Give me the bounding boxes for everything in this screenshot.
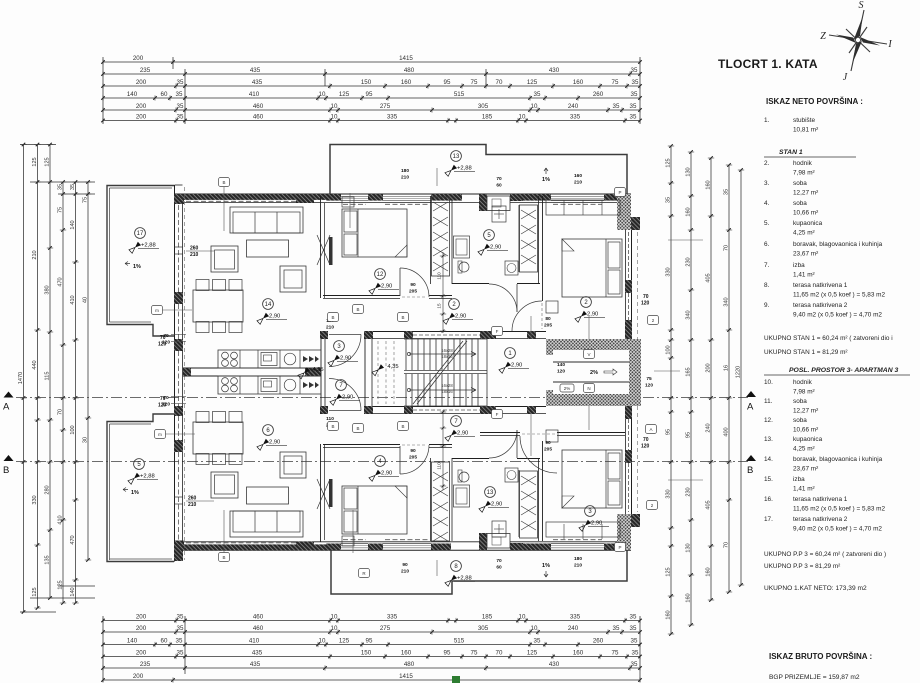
room label entry top (334, 341, 345, 352)
svg-text:15.: 15. (764, 476, 773, 483)
svg-text:izba: izba (793, 262, 805, 269)
svg-text:70: 70 (643, 437, 649, 443)
svg-text:205: 205 (544, 447, 552, 453)
svg-text:435: 435 (250, 67, 261, 74)
svg-text:70: 70 (724, 542, 730, 548)
svg-text:160: 160 (706, 567, 712, 576)
armchair top (211, 246, 238, 272)
wall south-west hatch band (174, 544, 330, 550)
tag bath bottom (492, 410, 503, 419)
bedroom SE west wall (542, 441, 544, 541)
room label corridor (505, 348, 516, 359)
tv bottom apartment (329, 479, 333, 507)
stair break line (413, 372, 438, 404)
svg-text:soba: soba (793, 398, 807, 405)
svg-text:75: 75 (83, 197, 89, 203)
sofa bottom apartment (230, 511, 303, 537)
svg-text:435: 435 (250, 661, 261, 668)
svg-text:305: 305 (478, 103, 489, 110)
wall west (174, 185, 176, 562)
dimension block left (20, 144, 56, 146)
svg-text:9,40 m2 (x 0,5 koef ) = 4,70 m: 9,40 m2 (x 0,5 koef ) = 4,70 m2 (793, 312, 882, 319)
svg-text:210: 210 (188, 502, 197, 508)
dimension block top (103, 61, 640, 63)
svg-text:125: 125 (666, 567, 672, 576)
tv top apartment (329, 237, 333, 265)
bedroom door arc bottom (399, 446, 401, 474)
svg-text:13.: 13. (764, 436, 773, 443)
bathroom top fixtures (454, 236, 470, 258)
svg-text:240: 240 (706, 423, 712, 432)
svg-text:1,41 m²: 1,41 m² (793, 486, 815, 493)
roof overhang dashed line east lower (637, 406, 639, 512)
svg-text:180: 180 (401, 168, 409, 174)
svg-text:95: 95 (666, 429, 672, 435)
svg-text:130: 130 (686, 167, 692, 176)
svg-text:135: 135 (45, 555, 51, 564)
svg-text:480: 480 (404, 67, 415, 74)
svg-text:B: B (3, 465, 9, 476)
svg-text:J: J (843, 72, 848, 83)
svg-text:210: 210 (574, 180, 582, 186)
corridor north wall (373, 331, 546, 333)
svg-text:F: F (496, 412, 499, 417)
svg-text:35: 35 (613, 103, 620, 110)
svg-text:2,90: 2,90 (457, 431, 468, 437)
svg-text:140: 140 (557, 362, 565, 368)
svg-text:35: 35 (631, 661, 638, 668)
svg-text:260: 260 (188, 496, 197, 502)
tag west wall top (152, 306, 163, 315)
svg-text:1%: 1% (542, 563, 550, 569)
svg-text:11,65 m2 (x 0,5 koef ) = 5,83: 11,65 m2 (x 0,5 koef ) = 5,83 m2 (793, 292, 886, 299)
svg-text:125: 125 (32, 587, 38, 596)
svg-text:UKUPNO P.P 3 = 81,29 m²: UKUPNO P.P 3 = 81,29 m² (764, 563, 840, 570)
svg-text:A: A (747, 402, 754, 413)
lobby interior (553, 361, 629, 363)
svg-text:90: 90 (410, 282, 416, 288)
svg-text:2%: 2% (564, 386, 571, 391)
room label entry bottom (336, 380, 347, 391)
bedroom4 door arc (512, 301, 542, 331)
wall south hatch piers (174, 544, 184, 551)
bathroom north wall bottom (452, 458, 489, 460)
tag east A (646, 425, 657, 434)
svg-text:STAN 1: STAN 1 (779, 149, 803, 156)
svg-text:120: 120 (645, 383, 653, 389)
svg-text:I: I (887, 39, 892, 50)
svg-text:70: 70 (163, 395, 169, 401)
svg-text:150: 150 (361, 79, 372, 86)
wardrobe column top (432, 197, 450, 276)
svg-text:75: 75 (471, 650, 478, 657)
svg-text:2,90: 2,90 (587, 312, 598, 318)
apartment entry door top (329, 334, 361, 336)
compass wind rose (829, 10, 887, 71)
svg-text:ISKAZ BRUTO POVRŠINA :: ISKAZ BRUTO POVRŠINA : (769, 652, 872, 661)
svg-text:95: 95 (444, 650, 451, 657)
kitchen party wall (183, 367, 321, 369)
svg-text:205: 205 (409, 455, 417, 461)
tag lobby N (584, 384, 595, 393)
svg-text:35: 35 (666, 197, 672, 203)
nightstand bedroom3 top (342, 197, 354, 207)
bedroom mid west wall bottom (320, 444, 322, 542)
svg-text:35: 35 (177, 114, 184, 121)
svg-text:7,98 m²: 7,98 m² (793, 389, 815, 396)
svg-text:140: 140 (70, 220, 76, 229)
tag west wall bottom (155, 430, 166, 439)
svg-text:23,67 m²: 23,67 m² (793, 251, 818, 258)
kitchen top (218, 350, 321, 368)
svg-text:110: 110 (437, 272, 442, 280)
tag lobby 2pct (560, 384, 574, 392)
svg-text:35: 35 (630, 625, 637, 632)
svg-text:16x28: 16x28 (441, 383, 453, 388)
svg-text:210: 210 (32, 250, 38, 259)
svg-text:TLOCRT 1. KATA: TLOCRT 1. KATA (718, 57, 818, 71)
svg-text:2,90: 2,90 (455, 314, 466, 320)
svg-text:B: B (401, 424, 404, 429)
svg-text:60: 60 (496, 183, 502, 189)
svg-text:230: 230 (686, 257, 692, 266)
wardrobe column 2 bottom (520, 471, 538, 538)
svg-text:2,90: 2,90 (490, 245, 501, 251)
svg-text:35: 35 (632, 79, 639, 86)
svg-text:140: 140 (70, 587, 76, 596)
nightstand bedroom4 (546, 301, 558, 313)
tag hall top 1 (353, 305, 364, 314)
svg-text:2,90: 2,90 (342, 395, 353, 401)
svg-text:m: m (158, 432, 162, 437)
svg-text:70: 70 (496, 79, 503, 86)
stair west wall (364, 331, 366, 414)
terrace 17 top-left outline (107, 186, 174, 337)
svg-text:4,25 m²: 4,25 m² (793, 446, 815, 453)
svg-text:1220: 1220 (736, 366, 742, 378)
svg-text:275: 275 (380, 103, 391, 110)
svg-text:12.: 12. (764, 417, 773, 424)
svg-text:5.: 5. (764, 220, 770, 227)
tag hall bottom 3 (398, 422, 409, 431)
svg-text:10: 10 (331, 103, 338, 110)
svg-text:100: 100 (70, 425, 76, 434)
svg-text:205: 205 (544, 323, 552, 329)
terrace door marks west top (174, 246, 183, 248)
svg-text:boravak, blagovaonica i kuhinj: boravak, blagovaonica i kuhinja (793, 456, 883, 463)
svg-text:35: 35 (176, 638, 183, 645)
svg-text:1415: 1415 (399, 673, 413, 680)
mini dim line bedroom mid east bottom (442, 410, 444, 490)
svg-text:B: B (356, 426, 359, 431)
svg-text:B: B (222, 555, 225, 560)
svg-text:23,67 m²: 23,67 m² (793, 466, 818, 473)
svg-text:125: 125 (339, 638, 350, 645)
svg-text:160: 160 (686, 207, 692, 216)
bathroom south wall top (452, 283, 489, 285)
roof overhang dashed line east upper (637, 232, 639, 339)
svg-text:110: 110 (326, 416, 334, 422)
svg-text:90: 90 (545, 440, 551, 446)
svg-text:N: N (587, 386, 590, 391)
svg-text:125: 125 (58, 580, 64, 589)
svg-text:+2,88: +2,88 (457, 166, 472, 172)
svg-text:335: 335 (570, 114, 581, 121)
tag bath top (492, 327, 503, 336)
svg-text:10: 10 (319, 91, 326, 98)
tag terrace south (359, 569, 370, 578)
svg-text:7,98 m²: 7,98 m² (793, 170, 815, 177)
bedroom3 door arc (399, 268, 401, 296)
stair direction arrows (407, 352, 410, 355)
svg-text:35: 35 (534, 91, 541, 98)
svg-text:70: 70 (58, 409, 64, 415)
entry hall west wall (320, 331, 322, 414)
svg-text:200: 200 (706, 363, 712, 372)
section marker A right (746, 391, 756, 397)
svg-text:terasa natkrivena 2: terasa natkrivena 2 (793, 302, 848, 309)
svg-text:60: 60 (161, 638, 168, 645)
vent shaft south (479, 533, 487, 550)
svg-text:165: 165 (686, 367, 692, 376)
svg-text:P: P (618, 545, 621, 550)
svg-text:12,27 m²: 12,27 m² (793, 408, 818, 415)
svg-text:75: 75 (58, 207, 64, 213)
svg-text:35: 35 (630, 114, 637, 121)
svg-text:210: 210 (574, 563, 582, 569)
svg-text:hodnik: hodnik (793, 379, 813, 386)
svg-text:izba: izba (793, 476, 805, 483)
svg-text:13: 13 (453, 154, 460, 160)
room label hallway bottom (451, 416, 462, 427)
terrace door marks west bottom (174, 496, 183, 498)
svg-text:130: 130 (686, 543, 692, 552)
room label bathroom bottom (485, 487, 496, 498)
svg-text:235: 235 (140, 67, 151, 74)
terrace 16 bottom-left outline (107, 414, 174, 562)
svg-text:UKUPNO STAN 1 = 60,24 m² ( zat: UKUPNO STAN 1 = 60,24 m² ( zatvoreni dio… (764, 335, 893, 342)
svg-text:POSL. PROSTOR 3- APARTMAN 3: POSL. PROSTOR 3- APARTMAN 3 (789, 367, 898, 374)
svg-text:330: 330 (666, 489, 672, 498)
svg-text:14.: 14. (764, 456, 773, 463)
svg-text:70: 70 (496, 650, 503, 657)
svg-text:UKUPNO STAN 1 = 81,29 m²: UKUPNO STAN 1 = 81,29 m² (764, 349, 848, 356)
svg-text:35: 35 (177, 650, 184, 657)
svg-text:10: 10 (331, 625, 338, 632)
wardrobe bathroom divider walls bottom (451, 458, 453, 541)
nightstand bottom mid (342, 536, 354, 546)
svg-text:200: 200 (136, 625, 147, 632)
closet strip bedroom4 (546, 200, 620, 215)
svg-text:10: 10 (531, 103, 538, 110)
svg-text:160: 160 (401, 79, 412, 86)
bedroom SE north wall and door (480, 432, 520, 434)
svg-text:410: 410 (58, 515, 64, 524)
svg-text:240: 240 (568, 103, 579, 110)
svg-text:2,90: 2,90 (269, 314, 280, 320)
svg-text:10.: 10. (764, 379, 773, 386)
dining table top (193, 290, 243, 322)
svg-text:440: 440 (32, 360, 38, 369)
svg-text:F: F (496, 329, 499, 334)
svg-text:hodnik: hodnik (793, 160, 813, 167)
tag lobby V (584, 350, 595, 359)
svg-text:2,90: 2,90 (381, 471, 392, 477)
svg-text:10: 10 (319, 638, 326, 645)
svg-text:210: 210 (401, 175, 409, 181)
tag east 2 top (648, 316, 659, 325)
svg-text:terasa natkrivena 2: terasa natkrivena 2 (793, 516, 848, 523)
svg-text:435: 435 (252, 650, 263, 657)
svg-text:1%: 1% (542, 177, 550, 183)
svg-text:115: 115 (45, 372, 51, 381)
svg-text:1%: 1% (131, 490, 139, 496)
stairwell landing dashed (377, 341, 379, 404)
svg-text:stubište: stubište (793, 117, 815, 124)
svg-text:7.: 7. (764, 262, 770, 269)
wardrobe column 2 top (520, 205, 538, 272)
svg-text:10: 10 (519, 114, 526, 121)
coffee table top (247, 240, 289, 257)
svg-text:V: V (587, 352, 590, 357)
svg-text:18x16: 18x16 (441, 389, 453, 394)
tag hall bottom 2 (328, 422, 339, 431)
svg-text:9,40 m2 (x 0,5 koef ) = 4,70 m: 9,40 m2 (x 0,5 koef ) = 4,70 m2 (793, 526, 882, 533)
svg-text:125: 125 (527, 650, 538, 657)
svg-text:95: 95 (366, 91, 373, 98)
svg-text:90: 90 (402, 562, 408, 568)
svg-text:A: A (3, 402, 10, 413)
svg-text:430: 430 (549, 661, 560, 668)
room label bedroom4 (581, 297, 592, 308)
svg-text:160: 160 (686, 593, 692, 602)
svg-text:200: 200 (136, 79, 147, 86)
svg-text:16.: 16. (764, 496, 773, 503)
svg-text:2,90: 2,90 (511, 363, 522, 369)
svg-text:200: 200 (136, 103, 147, 110)
svg-text:150: 150 (361, 650, 372, 657)
svg-text:2,90: 2,90 (381, 284, 392, 290)
svg-text:11,65 m2 (x 0,5 koef ) = 5,83: 11,65 m2 (x 0,5 koef ) = 5,83 m2 (793, 506, 886, 513)
svg-text:35: 35 (724, 189, 730, 195)
tag north wall (219, 178, 230, 187)
svg-text:10,81 m²: 10,81 m² (793, 127, 818, 134)
svg-text:2,90: 2,90 (491, 502, 502, 508)
room label bedroom3 (375, 269, 386, 280)
room label living bottom (263, 425, 274, 436)
svg-text:10: 10 (531, 625, 538, 632)
leader lines (223, 187, 225, 231)
svg-text:120: 120 (557, 369, 565, 375)
svg-text:1415: 1415 (399, 55, 413, 62)
svg-text:60: 60 (496, 565, 502, 571)
svg-text:35: 35 (534, 638, 541, 645)
svg-text:35: 35 (631, 91, 638, 98)
wall north windows (341, 195, 368, 197)
tag east 2 bottom (647, 501, 658, 510)
hallway south wall bottom (323, 444, 400, 446)
svg-text:35: 35 (58, 184, 64, 190)
corner crosshatch north-east (617, 194, 631, 230)
svg-text:17.: 17. (764, 516, 773, 523)
wall north hatch piers (174, 194, 184, 201)
wall north outer face (174, 193, 631, 195)
corridor south wall (373, 406, 546, 408)
svg-text:110: 110 (437, 462, 442, 470)
room label terrace 16 (134, 459, 145, 470)
svg-text:B: B (331, 424, 334, 429)
svg-text:160: 160 (573, 650, 584, 657)
svg-text:P: P (618, 190, 621, 195)
svg-text:70: 70 (496, 176, 502, 182)
svg-text:410: 410 (249, 638, 260, 645)
tag hall top 2 (328, 313, 339, 322)
wall north inner face (183, 202, 625, 204)
svg-text:kupaonica: kupaonica (793, 220, 823, 227)
svg-text:soba: soba (793, 180, 807, 187)
svg-text:125: 125 (45, 157, 51, 166)
svg-text:90: 90 (410, 448, 416, 454)
svg-text:4,35: 4,35 (387, 364, 398, 370)
svg-text:1.: 1. (764, 117, 770, 124)
svg-text:140: 140 (127, 91, 138, 98)
svg-text:10,66 m²: 10,66 m² (793, 427, 818, 434)
svg-text:70: 70 (496, 558, 502, 564)
svg-text:35: 35 (630, 103, 637, 110)
svg-text:35: 35 (630, 614, 637, 621)
wall south windows (341, 547, 368, 549)
svg-text:430: 430 (549, 67, 560, 74)
svg-text:260: 260 (190, 246, 199, 252)
svg-text:17: 17 (137, 231, 144, 237)
side table top (280, 266, 306, 292)
svg-text:soba: soba (793, 417, 807, 424)
svg-text:ISKAZ NETO POVRŠINA :: ISKAZ NETO POVRŠINA : (766, 97, 863, 106)
svg-text:1470: 1470 (18, 372, 24, 384)
bedroom4 west wall (542, 196, 544, 301)
svg-text:10,66 m²: 10,66 m² (793, 210, 818, 217)
svg-text:6.: 6. (764, 241, 770, 248)
svg-text:460: 460 (253, 103, 264, 110)
coffee table bottom (247, 487, 289, 504)
tag bedroom4 (615, 188, 626, 197)
room label bedroom mid bottom (375, 456, 386, 467)
hallway2 north wall (323, 295, 400, 297)
svg-text:405: 405 (706, 273, 712, 282)
bed bedroom mid bottom (342, 486, 407, 534)
svg-text:35: 35 (177, 625, 184, 632)
svg-text:210: 210 (190, 252, 199, 258)
svg-text:180: 180 (574, 556, 582, 562)
svg-text:185: 185 (482, 114, 493, 121)
svg-text:35: 35 (176, 91, 183, 98)
svg-text:12,27 m²: 12,27 m² (793, 190, 818, 197)
svg-text:260: 260 (593, 638, 604, 645)
nightstand bedroom SE (546, 430, 558, 442)
svg-text:BGP PRIZEMLJE = 159,87 m2: BGP PRIZEMLJE = 159,87 m2 (769, 674, 860, 681)
svg-text:125: 125 (32, 157, 38, 166)
bathroom door arc bottom (516, 430, 518, 458)
room label terrace 8 bottom (451, 561, 462, 572)
svg-text:1,41 m²: 1,41 m² (793, 272, 815, 279)
bed bedroom4 right top (562, 239, 622, 297)
svg-text:260: 260 (593, 91, 604, 98)
vent shaft north (479, 194, 487, 211)
section marker A left (4, 392, 14, 398)
svg-text:2,90: 2,90 (591, 521, 602, 527)
svg-text:13: 13 (487, 490, 494, 496)
lobby stubiste walls (546, 339, 641, 350)
